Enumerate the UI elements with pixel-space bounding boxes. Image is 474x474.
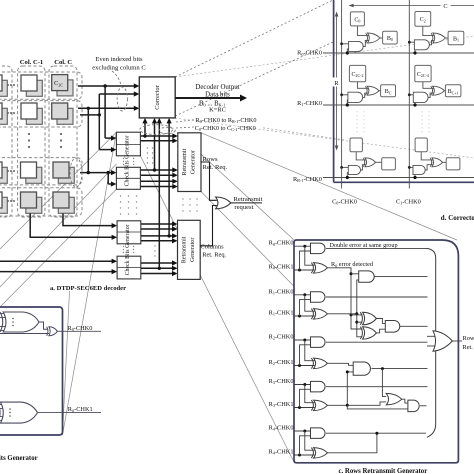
svg-text:b. Check Bits Generator: b. Check Bits Generator [0,455,38,462]
svg-text:Ret. Req.: Ret. Req. [203,164,228,171]
svg-text:R0-CHK0 to RR-1-CHK0: R0-CHK0 to RR-1-CHK0 [196,117,257,124]
svg-text:excluding column C: excluding column C [92,65,146,72]
svg-text:R2-CHK0: R2-CHK0 [269,334,294,341]
svg-text:Check Bits Generator: Check Bits Generator [125,224,131,275]
svg-text:Corrector: Corrector [154,84,161,109]
svg-text:Col. C: Col. C [54,59,72,66]
svg-text:R0-CHK0: R0-CHK0 [68,325,93,332]
svg-text:a. DTDP-SEC6ED decoder: a. DTDP-SEC6ED decoder [50,285,126,292]
svg-text:C: C [443,3,447,10]
svg-text:B1: B1 [453,36,459,42]
svg-text:R0-CHK1: R0-CHK1 [269,264,294,271]
svg-text:R2-CHK1: R2-CHK1 [269,359,294,366]
svg-text:Data bits: Data bits [205,92,230,99]
svg-text:Even indexed bits: Even indexed bits [95,56,143,63]
svg-text:request: request [234,204,253,211]
svg-text:Generator: Generator [191,150,197,174]
svg-text:Generator: Generator [190,238,196,262]
svg-text:c. Rows Retransmit Generator: c. Rows Retransmit Generator [339,468,428,474]
svg-text:R0-CHK0: R0-CHK0 [269,240,294,247]
svg-text:C1-CHK0: C1-CHK0 [396,198,421,205]
svg-text:C0-CHK0 to CC-1-CHK0: C0-CHK0 to CC-1-CHK0 [195,125,256,132]
svg-text:Ret. Req.: Ret. Req. [202,251,226,258]
svg-text:R3-CHK0: R3-CHK0 [269,378,294,385]
svg-text:Rows: Rows [203,156,218,163]
svg-text:Ret. Req.: Ret. Req. [463,344,474,351]
svg-text:Col. C-1: Col. C-1 [20,59,43,66]
svg-text:R4-CHK1: R4-CHK1 [269,449,294,456]
svg-text:R1-CHK0: R1-CHK0 [269,288,294,295]
svg-text:Retransmit: Retransmit [182,236,188,263]
svg-text:BC+1: BC+1 [448,89,459,95]
svg-text:C2C-4: C2C-4 [417,72,429,78]
svg-text:d. Corrector: d. Corrector [441,214,474,222]
svg-text:R0-CHK1: R0-CHK1 [68,406,93,413]
svg-text:R1-CHK1: R1-CHK1 [269,310,294,317]
svg-text:BC: BC [385,89,392,95]
svg-text:Retransmit: Retransmit [182,148,188,175]
svg-text:Double error at same group: Double error at same group [330,242,398,249]
svg-text:R0-CHK0: R0-CHK0 [297,50,322,57]
svg-text:R3-CHK1: R3-CHK1 [269,401,294,408]
svg-text:Retransmit: Retransmit [234,196,263,203]
svg-text:C2C-2: C2C-2 [351,72,363,78]
svg-text:R0 error detected: R0 error detected [331,261,374,268]
svg-text:Columns: Columns [201,243,225,250]
svg-text:K=RC: K=RC [209,106,226,113]
svg-text:C0: C0 [354,17,360,23]
svg-text:Decoder Output: Decoder Output [195,84,239,91]
svg-text:C2: C2 [420,17,426,23]
svg-text:B0: B0 [387,36,393,42]
svg-text:R1-CHK0: R1-CHK0 [297,100,322,107]
svg-text:R4-CHK0: R4-CHK0 [269,425,294,432]
svg-text:Rows: Rows [463,335,474,342]
svg-text:C0-CHK0: C0-CHK0 [332,198,357,205]
svg-text:Check Bits Generator: Check Bits Generator [124,135,130,186]
